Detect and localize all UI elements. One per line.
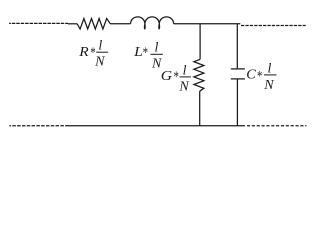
svg-text:l: l [98, 39, 102, 54]
svg-text:*: * [142, 43, 148, 60]
wire G branch bottom [199, 91, 201, 126]
label L value L*l/N [133, 41, 163, 72]
wire bottom solid [68, 125, 245, 127]
wire C branch top [236, 24, 238, 69]
wire top-left solid [68, 23, 77, 25]
svg-text:N: N [178, 79, 189, 94]
svg-text:N: N [94, 55, 105, 70]
label G value G*l/N [161, 64, 191, 95]
svg-text:l: l [155, 41, 159, 56]
svg-text:G: G [161, 69, 173, 84]
resistor R [77, 19, 110, 30]
label C value C*l/N [246, 62, 276, 93]
svg-text:*: * [173, 67, 179, 84]
wire C branch bottom [236, 79, 238, 126]
svg-text:l: l [183, 64, 187, 79]
svg-text:R: R [78, 45, 88, 60]
inductor L [131, 17, 174, 29]
svg-text:*: * [257, 67, 263, 84]
wire bottom-left dashed [9, 125, 68, 127]
wire top middle to right [174, 23, 241, 25]
label R value R*l/N [78, 39, 108, 70]
wire between R and L [110, 23, 130, 25]
wire top-left dashed [9, 22, 68, 24]
svg-text:l: l [268, 62, 272, 77]
svg-text:L: L [133, 45, 143, 60]
capacitor C bottom plate [231, 78, 245, 80]
capacitor C top plate [231, 68, 245, 70]
wire bottom-right dashed [247, 125, 307, 127]
resistor G (shunt) [194, 59, 204, 91]
wire G branch top [199, 24, 201, 60]
svg-text:N: N [263, 78, 274, 93]
svg-text:C: C [246, 67, 256, 83]
wire top-right dashed [241, 25, 306, 27]
